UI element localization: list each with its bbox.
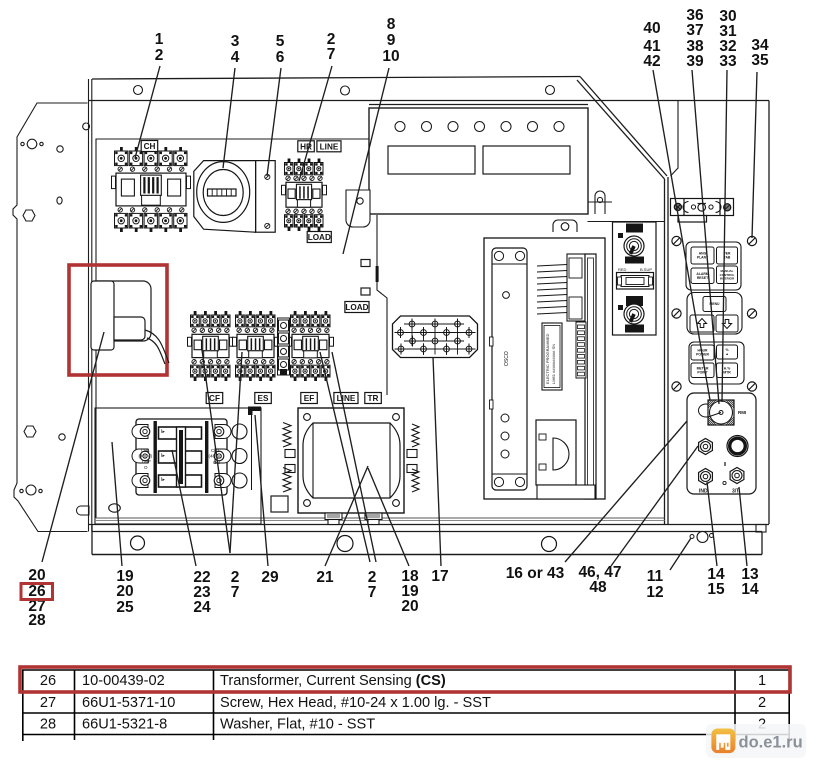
svg-text:RMI: RMI	[738, 410, 746, 415]
svg-text:EF: EF	[304, 394, 314, 403]
svg-text:LINE: LINE	[337, 394, 356, 403]
svg-text:LM61 ########## SN: LM61 ########## SN	[551, 344, 556, 384]
svg-text:42: 42	[643, 53, 660, 70]
svg-text:35: 35	[751, 52, 769, 69]
svg-text:27: 27	[40, 695, 56, 711]
svg-text:14: 14	[741, 581, 759, 598]
svg-text:(480V): (480V)	[139, 454, 153, 459]
svg-text:10: 10	[382, 48, 399, 65]
svg-text:21: 21	[316, 569, 334, 586]
svg-text:24: 24	[193, 599, 211, 616]
svg-text:OFF: OFF	[142, 459, 151, 464]
svg-text:4: 4	[231, 49, 240, 66]
svg-text:CH: CH	[144, 142, 156, 151]
svg-text:1: 1	[155, 31, 164, 48]
svg-text:RED: RED	[618, 267, 627, 272]
svg-text:25: 25	[116, 599, 134, 616]
svg-text:16 or 43: 16 or 43	[506, 565, 565, 582]
svg-text:20: 20	[28, 567, 45, 584]
svg-text:37: 37	[686, 22, 703, 39]
svg-text:29: 29	[261, 569, 279, 586]
svg-text:▲: ▲	[725, 352, 728, 356]
svg-text:B.SUP: B.SUP	[640, 267, 652, 272]
svg-text:2: 2	[155, 47, 164, 64]
svg-text:7: 7	[327, 46, 336, 63]
svg-text:8: 8	[387, 16, 396, 33]
svg-text:3: 3	[231, 33, 240, 50]
svg-text:ON: ON	[213, 460, 220, 465]
svg-text:33: 33	[719, 53, 737, 70]
svg-text:28: 28	[40, 717, 56, 733]
svg-text:POINT: POINT	[697, 370, 708, 374]
svg-text:10-00439-02: 10-00439-02	[82, 673, 165, 689]
svg-text:11: 11	[647, 568, 664, 585]
svg-text:12: 12	[646, 584, 663, 601]
svg-text:I▸: I▸	[161, 477, 165, 483]
svg-text:Transformer, Current Sensing (: Transformer, Current Sensing (CS)	[220, 673, 446, 689]
svg-text:O: O	[144, 465, 148, 470]
svg-text:TR: TR	[368, 394, 379, 403]
svg-text:Washer, Flat, #10 - SST: Washer, Flat, #10 - SST	[220, 717, 375, 733]
svg-text:(480V): (480V)	[209, 454, 223, 459]
svg-text:26: 26	[40, 673, 56, 689]
svg-text:40: 40	[643, 20, 660, 37]
svg-text:INTERIOR: INTERIOR	[720, 276, 735, 280]
svg-text:OSCO: OSCO	[504, 351, 510, 366]
svg-text:I▸: I▸	[161, 453, 165, 459]
svg-text:ES: ES	[258, 394, 269, 403]
svg-text:48: 48	[589, 579, 607, 596]
svg-text:IND: IND	[699, 489, 708, 495]
svg-text:66U1-5321-8: 66U1-5321-8	[82, 717, 167, 733]
svg-text:66U1-5371-10: 66U1-5371-10	[82, 695, 175, 711]
svg-text:do.e1.ru: do.e1.ru	[739, 734, 803, 752]
svg-text:LOAD: LOAD	[345, 303, 368, 312]
svg-text:7: 7	[231, 584, 240, 601]
svg-text:ELECTRIC PROGRAMMED: ELECTRIC PROGRAMMED	[545, 333, 550, 384]
svg-text:28: 28	[28, 612, 46, 629]
svg-text:RESET: RESET	[697, 276, 709, 280]
svg-text:17: 17	[431, 568, 448, 585]
svg-text:5: 5	[276, 33, 285, 50]
svg-text:LINE: LINE	[320, 142, 339, 151]
svg-text:6: 6	[276, 49, 285, 66]
svg-text:1: 1	[758, 673, 766, 689]
svg-text:CF: CF	[209, 394, 220, 403]
svg-text:LOAD: LOAD	[308, 233, 331, 242]
svg-text:MTR: MTR	[723, 370, 731, 374]
svg-text:Screw, Hex Head, #10-24 x 1.00: Screw, Hex Head, #10-24 x 1.00 lg. - SST	[220, 695, 491, 711]
svg-text:CB1: CB1	[141, 448, 150, 453]
svg-text:9: 9	[387, 32, 396, 49]
svg-text:7: 7	[368, 584, 377, 601]
svg-text:I▸: I▸	[161, 429, 165, 435]
svg-text:15: 15	[707, 581, 725, 598]
svg-text:2: 2	[758, 695, 766, 711]
svg-text:39: 39	[686, 53, 704, 70]
svg-text:3/T: 3/T	[732, 489, 739, 495]
svg-text:20: 20	[116, 583, 133, 600]
svg-text:20: 20	[401, 598, 418, 615]
